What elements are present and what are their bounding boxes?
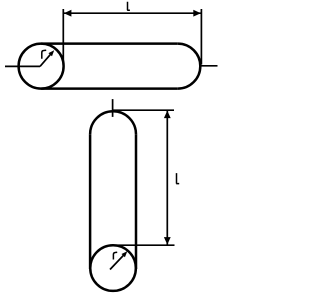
label l (top) bbox=[127, 2, 130, 11]
full circle at left end (radius r) bbox=[19, 44, 64, 89]
radius leader line (top circle) bbox=[40, 52, 53, 66]
extension line top (y=110) bbox=[112, 109, 174, 111]
vertical slot outline: right edge bbox=[135, 134, 138, 269]
horizontal slot outline: top edge bbox=[41, 42, 178, 45]
arrowhead bottom of vertical dimension bbox=[164, 237, 171, 245]
centerline (horizontal, through left circle) bbox=[5, 65, 40, 67]
label r (bottom circle) bbox=[113, 252, 117, 259]
extension line bottom (y=245.2) bbox=[112, 244, 175, 246]
radius leader line (bottom circle) bbox=[110, 253, 126, 269]
arrowhead right of top dimension bbox=[193, 10, 201, 17]
horizontal slot outline: right semicircular cap bbox=[178, 44, 201, 89]
label l (right) bbox=[176, 173, 179, 184]
dimension line l (right, vertical) bbox=[166, 110, 168, 245]
centerline tick above vertical slot bbox=[112, 99, 114, 117]
extension line right (x=201.4) bbox=[200, 9, 202, 65]
vertical slot outline: left edge bbox=[89, 134, 92, 269]
arrowhead left of top dimension bbox=[64, 10, 72, 17]
label r (top circle) bbox=[42, 50, 46, 59]
full circle at bottom end (radius r) bbox=[90, 245, 136, 291]
dimension line l (top, horizontal) bbox=[63, 12, 201, 14]
horizontal slot outline: bottom edge bbox=[41, 87, 178, 90]
arrowhead top of vertical dimension bbox=[164, 111, 171, 119]
arrowhead of radius leader (top circle) bbox=[48, 50, 54, 56]
centerline tick right of slot bbox=[201, 65, 217, 67]
arrowhead of radius leader (bottom circle) bbox=[122, 251, 128, 257]
extension line left (x=63.3) bbox=[62, 9, 64, 62]
vertical slot outline: top semicircular cap bbox=[90, 111, 136, 134]
